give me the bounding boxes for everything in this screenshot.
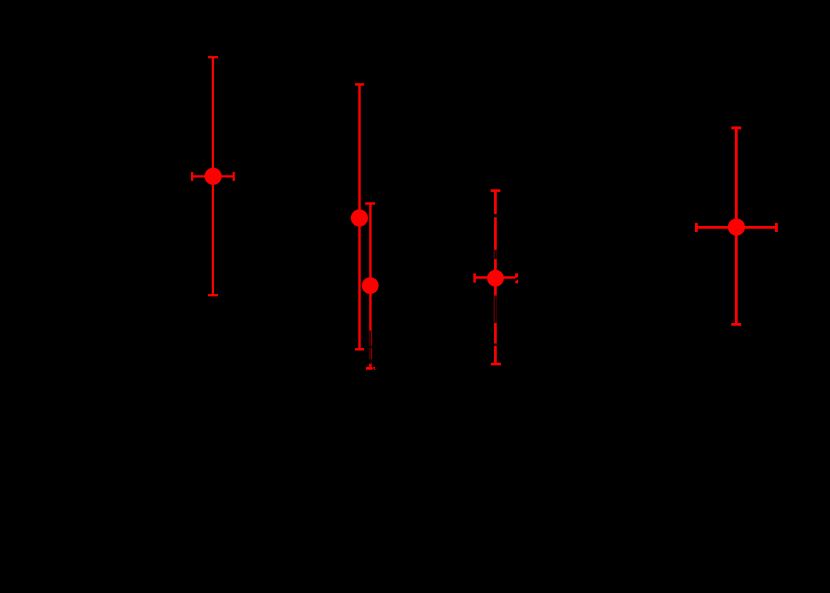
data point 2: bottom error cap [355,348,364,350]
data point 3: top error cap [365,202,375,204]
data point 3: vertical error bar dark overlapped segment right column [371,331,373,360]
data point 5: left error cap [695,223,698,232]
data point 1: circle marker [205,168,222,185]
data point 4: vertical bar bright segment a [494,191,497,215]
data point 3: vertical error bar dark overlapped segment left column [368,331,370,360]
data point 3: bottom error cap diagonal arm [372,367,375,370]
data point 3: lower bright stub with notch [369,363,372,367]
data point 4: top error cap [491,189,501,192]
data point 2: top error cap [355,83,364,85]
data point 5: circle marker [728,219,745,236]
data point 5: right error cap [775,223,778,232]
data point 1: horizontal error bar line [192,175,234,177]
data point 4: vertical bar bright segment h [494,346,497,364]
data point 4: circle marker [487,270,504,287]
data point 1: right error cap [233,172,235,181]
data point 4: vertical bar dark segment c left column [493,250,495,259]
data point 4: left error cap [473,273,475,282]
data point 5: bottom error cap [731,323,741,326]
data point 2: vertical error bar line [358,84,360,349]
data point 4: vertical bar bright segment g [494,323,497,344]
data point 3: bottom error cap corner dot [374,369,375,370]
data point 4: vertical bar dark segment f left column [493,296,495,323]
data point 2: circle marker [351,209,368,226]
data point 5: top error cap [731,127,741,130]
data point 4: vertical bar bright segment d [494,259,497,271]
data point 4: bottom error cap [491,363,501,366]
data point 5: horizontal error bar line [696,226,776,229]
data point 5: vertical error bar line [735,128,738,325]
data point 3: dark segment black rung gap [368,346,372,348]
data point 3: vertical error bar upper segment [369,204,371,331]
data point 1: bottom error cap [208,294,218,296]
data point 1: left error cap [191,172,193,181]
data point 4: vertical bar dark segment c right column [496,250,498,259]
data point 4: horizontal bar end sliver [512,276,515,278]
data point 4: right error cap lower part [515,279,518,283]
data point 4: vertical bar bright segment e [494,286,497,296]
data point 1: vertical error bar line [212,57,214,295]
data point 4: vertical bar bright segment b [494,217,497,250]
data point 1: top error cap [208,56,218,58]
data point 3: bottom error cap left bar [366,367,372,370]
data point 4: vertical bar dark segment f right column [496,296,498,323]
data point 4: horizontal error bar line with slanted cut end [473,276,514,278]
data point 4: right error cap upper part [515,273,518,278]
data point 3: circle marker [362,277,379,294]
